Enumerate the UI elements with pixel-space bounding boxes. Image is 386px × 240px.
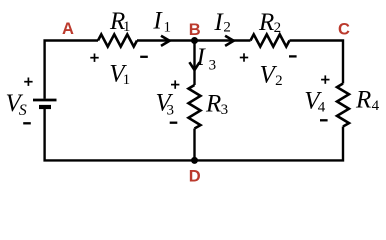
resistor R1 [98, 34, 137, 46]
V2 minus sign [289, 55, 297, 57]
wire R2 to C corner [290, 41, 344, 84]
current arrow I2 [225, 36, 234, 46]
current arrow I1 [161, 36, 170, 46]
battery plus sign [24, 78, 32, 86]
battery Vs plates [33, 99, 57, 102]
V1 minus sign [140, 56, 148, 58]
resistor R4 [337, 84, 349, 127]
battery minus sign [23, 122, 31, 124]
V2 plus sign [240, 53, 248, 61]
svg-text:D: D [189, 168, 201, 186]
wire node B down to R3 [193, 41, 195, 86]
wire top-left: A corner to R1 [45, 41, 98, 99]
V3 plus sign [171, 80, 179, 88]
wire bottom-left [45, 109, 195, 160]
node D junction dot [191, 157, 198, 164]
V1 plus sign [90, 54, 98, 62]
V4 plus sign [321, 75, 329, 83]
current arrow I3 [189, 62, 199, 70]
wire R4 to bottom-right corner [195, 127, 344, 161]
V3 minus sign [170, 122, 178, 124]
wire R1 to node B [137, 39, 195, 41]
node B junction dot [191, 37, 198, 44]
svg-text:C: C [338, 21, 350, 39]
V4 minus sign [320, 119, 328, 121]
wire R3 to node D [193, 129, 195, 161]
resistor R2 [251, 34, 290, 46]
svg-text:B: B [189, 21, 201, 39]
svg-text:A: A [62, 20, 74, 38]
wire node B to R2 [195, 39, 251, 41]
resistor R3 [189, 85, 201, 129]
